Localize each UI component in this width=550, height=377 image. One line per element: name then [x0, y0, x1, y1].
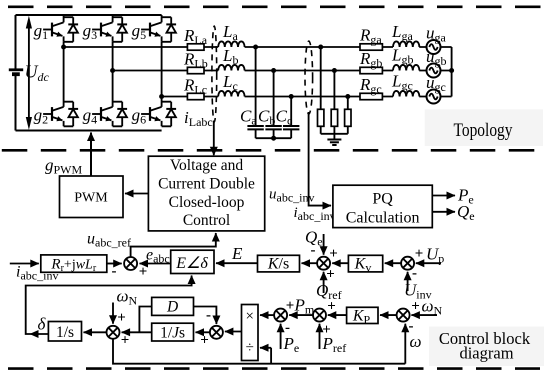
wire omega fb up	[404, 324, 406, 364]
VCDCC block	[148, 156, 264, 231]
inductor Lga	[393, 41, 419, 47]
capacitor Ca	[240, 47, 264, 138]
svg-text:+: +	[327, 299, 336, 315]
dashed border top	[8, 6, 541, 9]
source ugb	[427, 64, 441, 78]
block Edelta	[171, 250, 214, 273]
wire Pe out	[432, 195, 455, 197]
block multiply divide	[242, 305, 259, 361]
measurement ellipse uabc	[305, 41, 313, 114]
node phase c	[159, 94, 164, 99]
wire phase c	[162, 96, 452, 98]
svg-text:E∠δ: E∠δ	[175, 255, 208, 272]
wire mult out to sum4	[225, 331, 242, 333]
wire R to sumE	[107, 263, 122, 265]
Udc voltage arrow	[28, 20, 30, 125]
svg-text:K/s: K/s	[267, 256, 289, 273]
svg-text:δ: δ	[38, 315, 47, 334]
load common wire	[321, 134, 348, 139]
svg-text:Topology: Topology	[454, 120, 513, 141]
transistor g1	[43, 15, 78, 42]
load resistor a	[318, 47, 324, 134]
svg-text:+: +	[286, 298, 295, 314]
svg-text:+: +	[411, 299, 420, 315]
measurement ellipse iLabc	[212, 26, 217, 122]
wire omegaN in	[411, 314, 437, 316]
wire leg1	[63, 42, 65, 100]
wire sumN to 1s	[84, 331, 107, 333]
summing node Pm	[274, 309, 287, 322]
wire KP to sumPref	[328, 314, 347, 316]
wire sumW to KP	[380, 314, 397, 316]
wire Kv to sumQ	[332, 262, 348, 264]
wire sumQ to Ks	[302, 262, 318, 264]
wire omegaN stub	[112, 303, 114, 324]
resistor Rgb	[360, 67, 382, 73]
svg-text:Closed-loop: Closed-loop	[169, 194, 245, 211]
block 1/s	[48, 322, 81, 342]
source uga	[427, 40, 441, 54]
block K/s	[258, 255, 300, 272]
svg-text:ω: ω	[410, 332, 422, 351]
node load c	[345, 94, 350, 99]
wire div in	[260, 347, 271, 349]
svg-text:÷: ÷	[246, 340, 254, 356]
wire phase a	[64, 46, 452, 48]
svg-text:diagram: diagram	[459, 344, 513, 363]
wire Js out to sumN	[122, 331, 152, 333]
load resistor c	[345, 97, 351, 134]
svg-text:+: +	[329, 246, 338, 262]
resistor RLc	[187, 93, 204, 99]
svg-text:Calculation: Calculation	[346, 210, 420, 227]
summing node omegaN	[107, 326, 120, 339]
wire sumU to Kv	[385, 262, 402, 264]
wire phase b	[113, 70, 452, 72]
block KP	[347, 307, 378, 326]
inductor Lgb	[393, 65, 419, 71]
PWM block	[60, 176, 124, 218]
block 1/Js	[152, 323, 194, 341]
wire D tap	[139, 307, 151, 333]
PQ block	[333, 185, 432, 227]
wire sumPm to mult	[260, 314, 274, 316]
load resistor b	[331, 71, 337, 134]
transistor g4	[92, 100, 127, 127]
dashed separator	[2, 149, 541, 152]
wire iabcinv in	[10, 263, 39, 265]
wire D out	[194, 307, 217, 325]
summing node Pref	[313, 309, 326, 322]
wire Up in	[416, 262, 441, 264]
wire Pe stub	[280, 324, 282, 349]
ground	[327, 140, 341, 146]
summing node omega	[397, 309, 410, 322]
summing node e	[124, 257, 137, 270]
wire VCDCC to PWM	[125, 193, 148, 195]
svg-text:+: +	[415, 246, 424, 262]
node load b	[332, 68, 337, 73]
svg-text:+: +	[139, 264, 148, 280]
dashed border bottom	[8, 367, 540, 370]
wire Pref stub	[319, 324, 321, 349]
wire Qe out	[432, 211, 455, 213]
node phase b	[110, 68, 115, 73]
summing node U	[401, 257, 414, 270]
grid neutral bus	[451, 47, 453, 97]
wire Qe stub	[323, 234, 325, 255]
wire Uinv stub	[407, 272, 409, 291]
resistor Rgc	[360, 93, 382, 99]
Topology label	[425, 109, 543, 146]
wire leg2	[112, 42, 114, 100]
wire uabcref	[131, 233, 216, 257]
wire sumPref to sumPm	[289, 314, 313, 316]
svg-text:1/s: 1/s	[56, 324, 74, 341]
svg-text:Voltage and: Voltage and	[170, 157, 244, 174]
bottom dc bus	[16, 130, 162, 132]
transistor g5	[141, 15, 176, 42]
svg-text:PQ: PQ	[372, 191, 393, 208]
block Kv	[348, 255, 382, 274]
svg-text:1/Js: 1/Js	[160, 325, 185, 342]
summing node accel	[210, 326, 223, 339]
transistor g2	[43, 100, 78, 127]
wire leg3	[161, 42, 163, 100]
block Rr+jwLr	[41, 255, 107, 274]
wire gPWM	[90, 133, 92, 177]
wire delta out	[30, 333, 48, 335]
dc link left wire	[15, 15, 17, 131]
capacitor Cc	[276, 97, 300, 139]
svg-text:+: +	[117, 310, 126, 326]
wire E to Edelta	[216, 262, 258, 264]
node Ca tap	[253, 45, 258, 50]
node Cb tap	[271, 68, 276, 73]
node Cc tap	[289, 94, 294, 99]
inductor Lb	[218, 65, 244, 71]
summing node Q	[317, 257, 330, 270]
capacitor common wire	[256, 137, 292, 139]
resistor RLb	[187, 67, 204, 73]
capacitor Cb	[258, 71, 282, 139]
resistor RLa	[187, 44, 204, 50]
svg-text:Control: Control	[183, 212, 230, 229]
svg-text:-: -	[311, 243, 316, 259]
svg-text:-: -	[112, 264, 117, 280]
node phase a	[61, 45, 66, 50]
svg-text:D: D	[166, 299, 178, 316]
wire uabc iabc to PQ	[309, 112, 331, 206]
inductor Lc	[218, 91, 244, 97]
svg-text:+: +	[200, 333, 209, 349]
battery Udc	[9, 70, 23, 74]
transistor g3	[92, 15, 127, 42]
wire sum4 to Js	[196, 331, 211, 333]
source ugc	[427, 90, 441, 104]
node load a	[318, 45, 323, 50]
inductor La	[218, 41, 244, 47]
top dc bus	[16, 14, 162, 16]
svg-text:×: ×	[245, 309, 253, 325]
wire iLabc to controller	[213, 121, 215, 155]
wire Edelta to sumE	[140, 263, 171, 265]
transistor g6	[141, 100, 176, 127]
block D	[152, 297, 194, 315]
svg-text:Current Double: Current Double	[158, 175, 255, 192]
wire omega feedback bottom	[113, 339, 405, 364]
wire Qref stub	[323, 272, 325, 293]
svg-text:PWM: PWM	[74, 191, 108, 206]
svg-text:E: E	[231, 244, 243, 263]
node grid neutral	[449, 68, 454, 73]
svg-text:Rr+jwLr: Rr+jwLr	[50, 257, 96, 275]
svg-text:+: +	[121, 333, 130, 349]
inductor Lgc	[393, 91, 419, 97]
node cap neutral	[271, 136, 276, 141]
resistor Rga	[360, 44, 382, 50]
svg-text:-: -	[412, 266, 417, 282]
Control block diagram label	[429, 327, 544, 366]
svg-text:-: -	[206, 308, 211, 324]
